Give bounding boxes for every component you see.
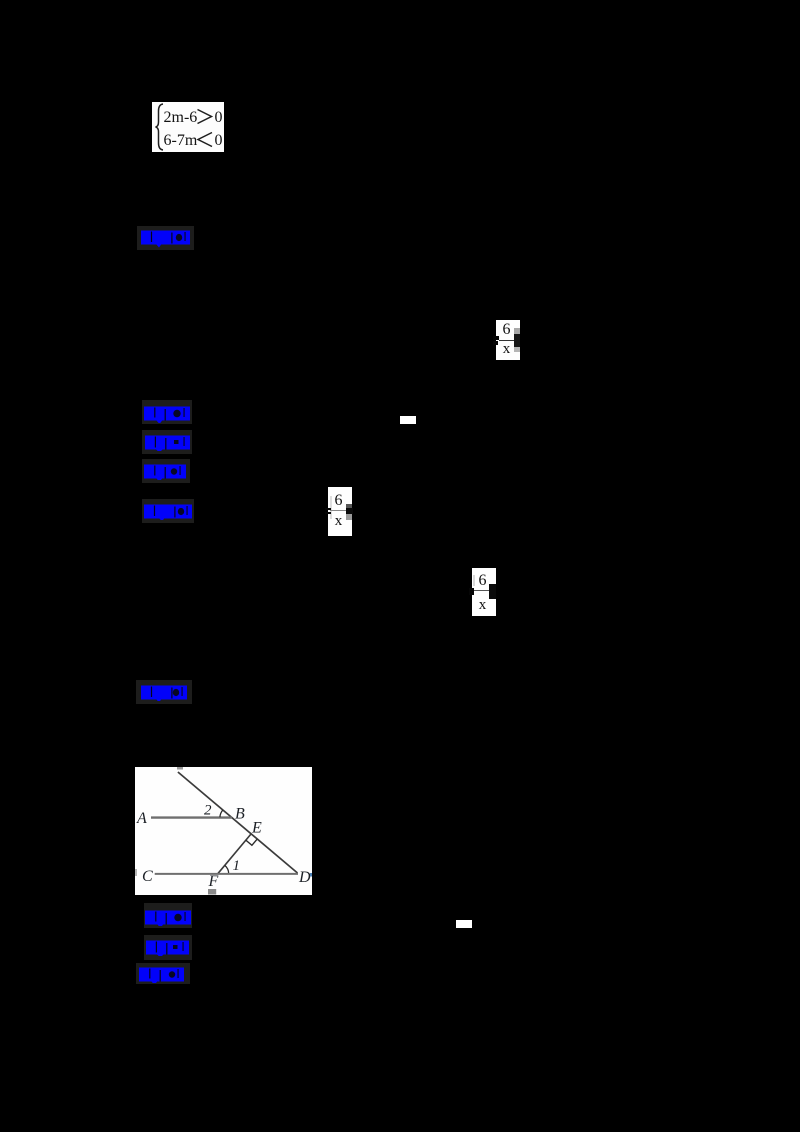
blue label 5 (jieda): [144, 503, 192, 520]
blue label 4 (fenxi) halo: [142, 459, 190, 483]
blue label 9 (fenxi 2): [139, 966, 184, 983]
line CD: [155, 873, 298, 875]
blue label 3 (zhuanti) halo: [142, 430, 192, 454]
geometry diagram image: [135, 767, 312, 895]
blue label 2 (kaodian): [144, 405, 190, 423]
fraction image 6/x (third): [472, 568, 496, 616]
blue dot right of D: [310, 873, 312, 877]
white dash placeholder 2: [456, 920, 472, 928]
blue label 4 (fenxi): [144, 463, 186, 480]
svg-text:0: 0: [215, 109, 223, 126]
blue label 9 (fenxi 2) halo: [136, 963, 190, 984]
blue label 8 (zhuanti 2) halo: [144, 935, 192, 960]
line AB: [151, 816, 232, 818]
blue label 3 (zhuanti): [145, 434, 190, 451]
formula image: system of inequalities {2m-6>0, 6-7m<0: [152, 102, 224, 152]
fraction image 6/x (second): [328, 487, 352, 536]
blue label 5 (jieda) halo: [142, 499, 194, 523]
svg-text:2: 2: [204, 803, 212, 819]
gray square below F: [208, 889, 216, 895]
blue label 1 (jiexi): [141, 229, 190, 249]
right angle mark at E: [246, 839, 257, 845]
angle arc at B: [220, 810, 223, 817]
svg-text:0: 0: [215, 132, 223, 149]
svg-text:1: 1: [233, 858, 241, 874]
fraction image 6/x (first): [496, 320, 520, 360]
blue label 1 (jiexi) halo: [137, 226, 194, 250]
svg-text:D: D: [298, 869, 311, 886]
svg-text:F: F: [208, 873, 219, 890]
angle arc at F: [225, 865, 229, 873]
blue label 8 (zhuanti 2): [146, 939, 189, 956]
diagram white background: [135, 767, 312, 895]
blue label 6 (dianping) halo: [136, 680, 192, 704]
svg-text:E: E: [251, 820, 262, 837]
gray tick top of transversal: [177, 767, 183, 770]
svg-text:B: B: [235, 806, 245, 823]
svg-text:C: C: [142, 868, 153, 885]
blue label 7 (kaodian 2) halo: [144, 903, 192, 928]
blue label 2 (kaodian) halo: [142, 400, 192, 424]
svg-text:A: A: [136, 810, 147, 827]
white dash placeholder 1: [400, 416, 416, 424]
svg-text:6-7m: 6-7m: [164, 132, 198, 149]
perpendicular segment EF: [218, 834, 251, 874]
svg-text:2m-6: 2m-6: [164, 109, 198, 126]
blue label 7 (kaodian 2): [145, 909, 191, 926]
blue label 6 (dianping): [141, 684, 187, 701]
transversal line through B, E, D: [178, 772, 298, 873]
gray tick left edge near C: [135, 869, 137, 876]
